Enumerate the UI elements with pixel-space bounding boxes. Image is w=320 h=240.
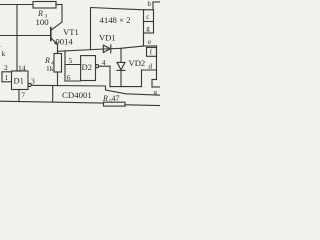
svg-text:g: g [146, 25, 150, 33]
svg-text:3: 3 [31, 77, 35, 86]
svg-text:100: 100 [36, 17, 50, 27]
svg-text:VD2: VD2 [129, 58, 146, 68]
svg-text:7: 7 [21, 90, 25, 99]
svg-text:1: 1 [5, 73, 9, 82]
svg-text:·: · [0, 45, 2, 51]
svg-text:5: 5 [69, 56, 73, 65]
svg-text:6: 6 [67, 73, 71, 82]
svg-text:14: 14 [18, 64, 26, 73]
svg-text:b: b [148, 0, 152, 8]
svg-text:4: 4 [102, 58, 106, 67]
svg-text:d: d [149, 63, 153, 71]
svg-text:1k: 1k [46, 64, 54, 73]
svg-text:47: 47 [112, 94, 120, 103]
svg-text:f: f [150, 49, 153, 57]
svg-text:c: c [146, 13, 149, 21]
svg-text:4148 × 2: 4148 × 2 [100, 15, 131, 25]
svg-text:CD4001: CD4001 [62, 90, 92, 100]
svg-text:2: 2 [4, 63, 8, 72]
svg-text:VD1: VD1 [99, 32, 116, 42]
svg-text:R: R [102, 94, 108, 103]
svg-text:e: e [148, 38, 151, 46]
svg-text:D1: D1 [14, 76, 24, 86]
svg-text:9014: 9014 [56, 36, 74, 46]
svg-text:k: k [2, 49, 6, 58]
svg-text:D2: D2 [82, 62, 93, 72]
